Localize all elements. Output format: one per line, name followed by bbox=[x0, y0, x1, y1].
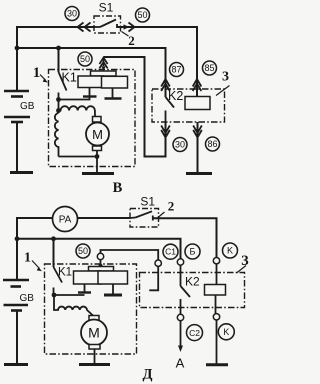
connector chevrons left of S1 bbox=[78, 23, 91, 32]
circle 85 bbox=[203, 61, 217, 75]
solenoid pull-in winding (horizontal coil) bbox=[59, 106, 96, 116]
right contact stud grounded bbox=[112, 284, 114, 294]
svg-text:В: В bbox=[113, 180, 123, 196]
node dot2 bbox=[56, 108, 61, 113]
svg-text:S1: S1 bbox=[99, 0, 114, 14]
relay K2 box (bottom) bbox=[140, 273, 245, 308]
wire: junction rail to K2 terminal 87 bbox=[17, 48, 166, 97]
wire dot1 to left stud bbox=[59, 97, 90, 100]
solenoid winding (bottom) bbox=[54, 295, 94, 316]
svg-text:PA: PA bbox=[59, 215, 72, 226]
node motor ground bbox=[95, 154, 100, 159]
node solenoid bbox=[52, 293, 57, 298]
wire K2 coil to ground terminal 86 bbox=[197, 122, 199, 173]
circle 87 bbox=[170, 63, 184, 77]
svg-text:50: 50 bbox=[78, 246, 88, 256]
terminal K bottom to ground bbox=[213, 314, 219, 320]
svg-text:30: 30 bbox=[175, 140, 185, 150]
svg-text:2: 2 bbox=[128, 33, 135, 48]
wire: battery rail with ammeter bbox=[17, 218, 130, 280]
motor M (bottom) bbox=[89, 316, 99, 321]
label 2 with leader bbox=[158, 212, 165, 218]
terminal 50 connector column onto contact plate bbox=[103, 57, 105, 66]
terminal 50 (bottom): small circle and stub to plate bbox=[97, 253, 103, 259]
S1 bottom contacts bbox=[130, 217, 136, 220]
wire node to left stud bbox=[54, 294, 85, 296]
terminal circle 30 bbox=[65, 7, 79, 21]
svg-text:Д: Д bbox=[143, 367, 153, 383]
svg-text:1: 1 bbox=[24, 251, 31, 266]
wire terminal 50 to C1 bbox=[101, 250, 159, 260]
node battery branch bbox=[15, 236, 20, 241]
svg-text:30: 30 bbox=[67, 9, 77, 19]
svg-text:86: 86 bbox=[207, 139, 217, 149]
wire: top rail from S1 to relay K2 terminal 85 bbox=[117, 27, 197, 97]
K2 coil bbox=[185, 97, 210, 110]
motor M bbox=[93, 117, 102, 123]
starter unit box (item 1) bbox=[49, 70, 136, 167]
right contact stud bbox=[112, 88, 114, 99]
svg-text:K2: K2 bbox=[185, 275, 200, 289]
left contact stud bbox=[89, 88, 91, 97]
switch S1 box (bottom) bbox=[130, 209, 159, 228]
svg-text:50: 50 bbox=[137, 10, 147, 20]
node junction starter feed bbox=[56, 46, 61, 51]
label 2 with leader bbox=[122, 32, 129, 37]
circle 50 (solenoid terminal) bbox=[78, 52, 92, 66]
ground bar motor (bottom) bbox=[79, 363, 110, 366]
connector arrow right of S1 bbox=[121, 26, 125, 28]
node starter feed bbox=[51, 236, 56, 241]
svg-text:A: A bbox=[176, 356, 185, 371]
wire: battery positive rail top bbox=[17, 27, 95, 91]
K2 contact blade bbox=[166, 97, 175, 108]
svg-text:2: 2 bbox=[168, 199, 175, 214]
connector chevrons terminal 87 bbox=[161, 79, 170, 91]
K2 coil (bottom) bbox=[205, 285, 226, 296]
svg-text:Б: Б bbox=[190, 247, 196, 257]
K2 contact internals (bottom) bbox=[149, 266, 158, 290]
wire: battery junction rail to terminal B bbox=[17, 239, 181, 259]
svg-text:3: 3 bbox=[222, 70, 229, 85]
svg-text:GB: GB bbox=[20, 101, 35, 112]
svg-text:K2: K2 bbox=[168, 89, 183, 103]
solenoid contact bridge plates bbox=[78, 71, 128, 88]
svg-text:K: K bbox=[227, 246, 233, 256]
svg-text:GB: GB bbox=[20, 293, 35, 304]
solenoid hold-in winding (vertical coil) bbox=[55, 113, 59, 157]
wire: S1 output to terminal K bbox=[153, 218, 217, 257]
ammeter PA bbox=[53, 207, 78, 232]
contact bridge plates (bottom) bbox=[74, 267, 128, 285]
svg-text:C1: C1 bbox=[165, 247, 176, 257]
bottom rail of starter bbox=[59, 156, 98, 158]
svg-text:K: K bbox=[223, 327, 229, 337]
wire K2 contact output to terminal 30 and solenoid 50 bbox=[104, 57, 166, 157]
ground bar 86 bbox=[186, 172, 212, 175]
starter unit box (bottom, item 1) bbox=[45, 264, 137, 354]
svg-text:87: 87 bbox=[171, 65, 181, 75]
connector chevrons terminal 85 bbox=[193, 79, 202, 91]
switch S1 contacts bbox=[94, 26, 100, 28]
circle 30 (relay output) bbox=[173, 138, 187, 152]
battery GB (bottom) bbox=[3, 280, 29, 365]
ground bar K2 (bottom) bbox=[206, 363, 228, 366]
terminal circles C1 B K bbox=[163, 244, 178, 259]
switch S1 box bbox=[94, 16, 121, 33]
left contact stud bbox=[84, 284, 86, 293]
svg-text:K1: K1 bbox=[62, 70, 77, 84]
small terminal circles on K2 bbox=[155, 260, 161, 266]
circle 86 bbox=[206, 137, 220, 151]
wire: starter feed down bbox=[58, 48, 60, 72]
battery GB bbox=[4, 91, 33, 173]
svg-text:1: 1 bbox=[33, 65, 41, 81]
terminal C2 to ammeter A bbox=[177, 314, 183, 320]
svg-text:M: M bbox=[92, 127, 103, 142]
node dot1 bbox=[56, 97, 61, 102]
node junction on battery rail bbox=[15, 46, 20, 51]
relay K1 contact blade bbox=[59, 72, 67, 91]
svg-text:M: M bbox=[88, 325, 100, 341]
svg-text:S1: S1 bbox=[140, 195, 155, 209]
circle 50 label bbox=[76, 244, 90, 258]
relay K1 contact (bottom) bbox=[53, 239, 55, 267]
svg-text:85: 85 bbox=[204, 63, 214, 73]
connector chevrons terminal 30 bbox=[161, 126, 170, 138]
relay K2 box bbox=[152, 89, 225, 122]
ground bar starter bbox=[82, 172, 114, 175]
terminal circle 50 bbox=[136, 8, 150, 22]
svg-text:K1: K1 bbox=[58, 267, 72, 279]
svg-text:C2: C2 bbox=[189, 328, 200, 338]
svg-text:50: 50 bbox=[80, 54, 90, 64]
